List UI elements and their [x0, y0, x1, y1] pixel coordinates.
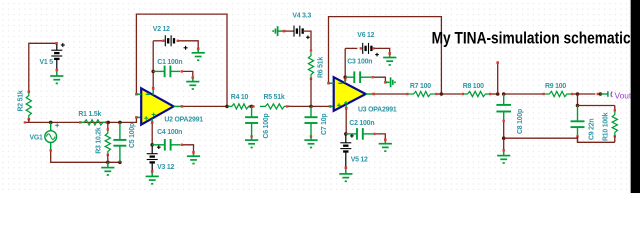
- svg-text:C1 100n: C1 100n: [157, 59, 182, 66]
- svg-text:R1 1.5k: R1 1.5k: [78, 111, 101, 118]
- svg-text:C9 22n: C9 22n: [588, 119, 595, 140]
- svg-text:VG1: VG1: [30, 135, 44, 142]
- svg-text:V4 3.3: V4 3.3: [292, 12, 311, 19]
- svg-text:R7 100: R7 100: [410, 83, 431, 90]
- svg-text:C7 10p: C7 10p: [321, 114, 328, 135]
- svg-text:R8 100: R8 100: [463, 83, 484, 90]
- svg-text:V3 12: V3 12: [157, 164, 174, 171]
- svg-text:R2 51k: R2 51k: [17, 90, 24, 111]
- svg-text:My TINA-simulation schematic: My TINA-simulation schematic: [432, 29, 631, 48]
- svg-text:C3 100n: C3 100n: [347, 59, 372, 66]
- svg-text:V1 5: V1 5: [40, 59, 54, 66]
- svg-text:V6 12: V6 12: [357, 32, 374, 39]
- svg-text:R9 100: R9 100: [545, 83, 566, 90]
- svg-text:U3 OPA2991: U3 OPA2991: [358, 107, 397, 114]
- svg-text:Vout: Vout: [615, 90, 632, 100]
- svg-text:R4 10: R4 10: [231, 94, 249, 101]
- svg-text:C5 100p: C5 100p: [129, 123, 136, 148]
- svg-text:V2 12: V2 12: [153, 26, 170, 33]
- svg-text:C2 100n: C2 100n: [349, 120, 374, 127]
- svg-text:R10 100k: R10 100k: [602, 112, 609, 141]
- svg-text:C6 100p: C6 100p: [263, 113, 270, 138]
- svg-text:R6 51k: R6 51k: [317, 57, 324, 78]
- svg-text:V5 12: V5 12: [351, 156, 368, 163]
- svg-text:R3 10.2k: R3 10.2k: [96, 127, 103, 154]
- svg-text:R5 51k: R5 51k: [264, 94, 285, 101]
- svg-text:C8 100p: C8 100p: [517, 109, 524, 134]
- svg-text:C4 100n: C4 100n: [157, 129, 182, 136]
- svg-text:U2 OPA2991: U2 OPA2991: [164, 117, 203, 124]
